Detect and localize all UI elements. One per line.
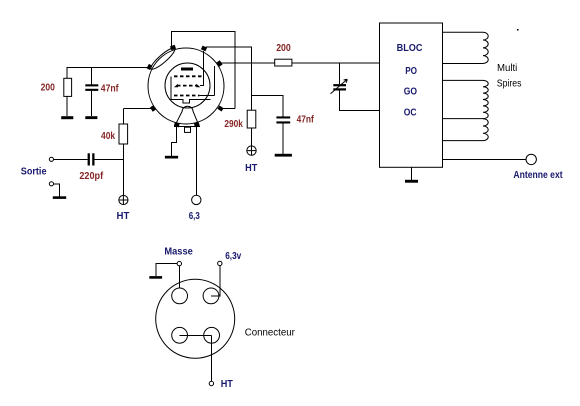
ground below 200 left [61, 116, 73, 119]
connector big circle [156, 279, 235, 358]
BLOC box [380, 23, 443, 167]
wire 40k top stem [122, 109, 124, 124]
svg-text:47nf: 47nf [101, 83, 119, 94]
ground masse [149, 276, 162, 279]
wire stem 200 ohm left resistor bottom [66, 96, 68, 116]
wire 6,3v to pin [211, 266, 220, 296]
wire bottom pin to HT terminal [211, 335, 213, 381]
ground tube cathode [165, 156, 178, 159]
tube grid row2 dashed with arrows [177, 85, 197, 87]
wire between bottom pins [180, 334, 212, 336]
tube inner circle [165, 63, 210, 108]
wire 47nf right bottom stem [282, 124, 284, 154]
resistor 200 top [275, 59, 292, 66]
wire 290k bottom to HT terminal [251, 128, 253, 146]
wire 290k node to 47nf right capacitor [252, 96, 284, 117]
wire stems 47nf left capacitor [90, 67, 92, 116]
wire antenna line [443, 158, 527, 160]
HT terminal right (plus circle) [247, 146, 256, 155]
connector pin top-right [203, 288, 219, 304]
tube bell (cathode cone) [176, 106, 198, 124]
connector pin top-left [172, 288, 188, 304]
svg-text:Antenne ext: Antenne ext [513, 170, 563, 181]
svg-text:200: 200 [41, 83, 56, 94]
svg-text:GO: GO [404, 87, 417, 98]
terminal HT bottom [209, 381, 213, 385]
wire 220pf to 40k node [95, 158, 124, 160]
svg-text:HT: HT [221, 379, 233, 390]
svg-text:Spires: Spires [497, 79, 522, 90]
wire sortie terminal to 220pf [54, 158, 88, 160]
capacitor 47nf left [85, 84, 98, 91]
wire stem 200 ohm left resistor top [66, 67, 68, 79]
connector pin bottom-right [204, 327, 220, 343]
ground below 47nf left [85, 116, 97, 119]
svg-text:Multi: Multi [497, 63, 517, 74]
tube grid bus left [170, 76, 172, 99]
tube grid2 vertical from pin [200, 51, 203, 86]
tube grid row1 dashed [174, 75, 203, 77]
terminal antenne [526, 154, 536, 164]
svg-text:200: 200 [276, 43, 291, 54]
tube outer circle [148, 48, 224, 124]
HT terminal left (plus circle) [119, 195, 128, 204]
wire heater pin to 6,3 terminal [196, 127, 198, 196]
tube anode bar [181, 68, 193, 71]
variable capacitor arrow [331, 79, 348, 94]
tube grid3 link to pin [199, 66, 214, 96]
svg-text:Sortie: Sortie [21, 167, 47, 178]
terminal masse [177, 261, 181, 265]
svg-text:6,3: 6,3 [189, 211, 200, 222]
svg-text:PO: PO [405, 66, 417, 77]
svg-text:220pf: 220pf [79, 171, 103, 182]
wire BLOC ground stem [411, 167, 413, 180]
svg-text:Masse: Masse [164, 247, 193, 258]
wire lower-left tube pin to 40k [123, 108, 152, 110]
tube pins [147, 45, 224, 128]
wire lower-right pin to loop vertical [221, 108, 235, 110]
svg-text:6,3v: 6,3v [225, 251, 241, 262]
resistor 290k [247, 110, 256, 128]
resistor R 200 left [64, 78, 72, 96]
wire variable capacitor bottom to BLOC [340, 90, 380, 110]
capacitor 220pf [88, 153, 95, 165]
svg-text:40k: 40k [101, 131, 115, 142]
svg-text:OC: OC [404, 107, 417, 118]
coil 1 (PO winding) [443, 32, 489, 63]
svg-text:Connecteur: Connecteur [245, 328, 296, 339]
ground below 47nf right [275, 154, 292, 157]
resistor 40k [119, 124, 128, 144]
svg-text:BLOC: BLOC [397, 43, 423, 54]
wire masse terminal to pin [178, 266, 180, 288]
wire tube cathode pin to ground [171, 127, 176, 156]
coil 2 lower winding [443, 119, 489, 141]
variable capacitor CV [333, 84, 346, 90]
ground below BLOC [405, 180, 418, 183]
stray dot [517, 29, 519, 31]
terminal sortie lower [49, 182, 53, 186]
wire masse to ground [156, 264, 177, 277]
wire 40k bottom to HT terminal [122, 144, 124, 195]
capacitor 47nf right [276, 116, 290, 123]
svg-text:HT: HT [117, 211, 130, 222]
wire tube plate row to 200 ohm resistor and BLOC [220, 62, 380, 64]
tube grid row3 dashed [174, 95, 199, 97]
wire tube left pin to left RC node [67, 66, 148, 68]
svg-text:HT: HT [245, 163, 257, 174]
terminal sortie upper [49, 157, 53, 161]
tube heater line between bottom pins [174, 126, 200, 128]
terminal 6,3 [192, 195, 201, 204]
terminal 6,3v [218, 261, 222, 265]
tube cathode bottom line with notch [171, 99, 211, 103]
svg-text:47nf: 47nf [297, 115, 315, 126]
connector pin bottom-left [172, 327, 188, 343]
wire top loop (grid1 to plate loop above tube) [172, 31, 236, 108]
coil 2 (GO winding upper) [443, 80, 489, 118]
tube internal lens connection [149, 46, 177, 72]
ground below sortie [53, 196, 66, 199]
svg-text:290k: 290k [224, 119, 243, 130]
wire variable capacitor top stem [339, 63, 341, 84]
tube socket key [185, 127, 191, 132]
wire sortie lower terminal to ground [54, 184, 60, 197]
wire grid2 pin to 290k node [206, 47, 252, 110]
